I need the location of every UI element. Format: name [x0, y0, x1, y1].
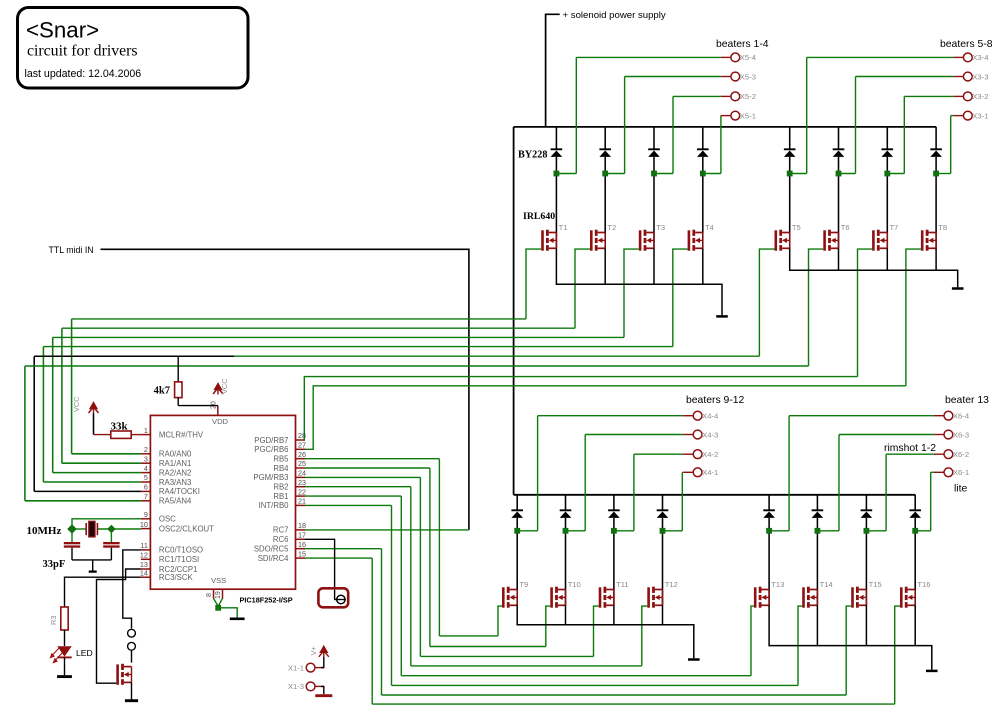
- svg-text:22: 22: [298, 487, 306, 496]
- wire source drop: [662, 605, 664, 625]
- wire X3-2 row: [904, 95, 953, 97]
- transistor T4 (IRL640): [688, 230, 703, 251]
- svg-text:2: 2: [144, 445, 148, 454]
- svg-text:T15: T15: [869, 580, 882, 589]
- diode D9 (BY228): [511, 509, 523, 511]
- svg-text:T5: T5: [792, 223, 801, 232]
- capacitor 33pF at x=72.0: [71, 529, 73, 542]
- transistor T8 (IRL640): [921, 230, 936, 251]
- svg-text:BY228: BY228: [518, 150, 547, 161]
- svg-text:X1-3: X1-3: [288, 682, 304, 691]
- node drain junction T4: [700, 171, 706, 177]
- pin 3 RA1/AN1: [141, 462, 151, 464]
- pin 11 RC0/T1OSO: [141, 549, 151, 551]
- wire X4-2 row: [634, 453, 683, 455]
- wire X1-3 to ground: [321, 686, 324, 694]
- connector X3-3: [963, 72, 972, 81]
- connector X6-1: [944, 468, 953, 477]
- svg-text:T11: T11: [616, 580, 629, 589]
- connector X3-1: [963, 111, 972, 120]
- node drain junction T6: [836, 171, 842, 177]
- pins 8,19 VSS: [213, 589, 215, 599]
- crystal Q1 10MHz: [85, 523, 87, 535]
- svg-text:<Snar>: <Snar>: [26, 18, 99, 43]
- pad J1 (jack/test pad): [318, 588, 348, 607]
- wire riser T8 to connector: [950, 116, 952, 174]
- wire gate lead T15: [846, 606, 851, 695]
- wire RC0 to jumper: [123, 550, 141, 629]
- resistor 33k: [94, 434, 111, 436]
- svg-text:21: 21: [298, 497, 306, 506]
- svg-text:R3: R3: [49, 616, 58, 625]
- wire pin 15 to bottom gate row: [305, 557, 372, 559]
- resistor R? 4k7: [177, 356, 179, 382]
- node drain junction T14: [815, 528, 821, 534]
- connector X6-2: [944, 450, 953, 459]
- wire pin 24 to bottom gate row: [305, 476, 420, 478]
- wire RB7 (pin 28) to T7 gate: [304, 377, 857, 440]
- pin 9 OSC: [141, 518, 151, 520]
- ground crystal caps: [89, 570, 97, 572]
- ground T1-T4: [716, 315, 728, 318]
- diode D13 (BY228): [763, 509, 775, 511]
- svg-text:X5-1: X5-1: [740, 111, 756, 120]
- svg-text:RC7: RC7: [273, 526, 289, 535]
- wire drain jog T15: [866, 530, 886, 532]
- svg-text:beater 13: beater 13: [945, 395, 989, 406]
- wire to gnd: [92, 560, 94, 571]
- diode D4 (BY228): [697, 148, 709, 150]
- transistor T13 (IRL640): [754, 587, 769, 608]
- wire RA5 (pin 7) bundle: [25, 500, 141, 502]
- wire RB6 (pin 27) to T8 gate: [305, 386, 906, 450]
- wire X4-1 row: [681, 471, 684, 473]
- svg-text:33k: 33k: [111, 420, 129, 432]
- svg-text:PGC/RB6: PGC/RB6: [254, 445, 288, 454]
- svg-text:4k7: 4k7: [154, 386, 170, 397]
- wire drain column T8: [935, 127, 937, 149]
- diode D15 (BY228): [861, 509, 873, 511]
- svg-text:RB5: RB5: [273, 455, 289, 464]
- svg-text:circuit for drivers: circuit for drivers: [27, 43, 138, 60]
- wire OSC pin9: [72, 519, 141, 529]
- pin 28 PGD/RB7: [296, 439, 306, 441]
- wire gate lead T8: [906, 249, 921, 386]
- wire gate lead T11: [594, 606, 599, 656]
- wire drain column T9: [516, 495, 518, 511]
- wire gate lead T12: [642, 606, 648, 666]
- pin 24 PGM/RB3: [296, 476, 306, 478]
- svg-text:RB1: RB1: [273, 492, 288, 501]
- svg-text:V+: V+: [309, 646, 318, 655]
- svg-text:TTL midi IN: TTL midi IN: [49, 245, 94, 255]
- transistor T9 (IRL640): [502, 587, 517, 608]
- wire RA0 (pin 2) bundle: [72, 453, 141, 455]
- transistor T11 (IRL640): [599, 587, 614, 608]
- node VSS junction: [215, 605, 221, 611]
- transistor T12 (IRL640): [647, 587, 662, 608]
- node drain junction T1: [554, 171, 560, 177]
- wire riser T11 to connector: [633, 454, 635, 531]
- jumper pin bottom: [128, 642, 136, 650]
- resistor R3: [61, 607, 68, 630]
- svg-text:IRL640: IRL640: [523, 211, 555, 222]
- svg-text:SDI/RC4: SDI/RC4: [258, 554, 289, 563]
- wire drain jog T5: [790, 173, 807, 175]
- svg-text:24: 24: [298, 469, 306, 478]
- svg-text:SDO/RC5: SDO/RC5: [254, 545, 289, 554]
- wire X3-4 row: [807, 56, 954, 58]
- svg-text:X5-4: X5-4: [740, 53, 757, 62]
- svg-text:T2: T2: [607, 223, 616, 232]
- wire X5-2 row: [673, 95, 721, 97]
- transistor T7 (IRL640): [872, 230, 887, 251]
- wire row RA0 to T1 gate: [72, 318, 526, 320]
- ground X1-3: [315, 694, 332, 697]
- svg-text:T7: T7: [890, 223, 899, 232]
- wire riser T3 to connector: [672, 96, 674, 173]
- diode D11 (BY228): [608, 509, 620, 511]
- wire Q17 source to ground: [131, 682, 133, 699]
- svg-text:X6-3: X6-3: [953, 430, 969, 439]
- wire riser T9 to connector: [537, 416, 539, 531]
- wire X3-1 row: [951, 115, 954, 117]
- svg-text:X6-4: X6-4: [953, 412, 970, 421]
- svg-text:T13: T13: [771, 580, 784, 589]
- wire R3 to LED: [64, 630, 66, 646]
- svg-text:X3-1: X3-1: [972, 111, 988, 120]
- pin 5 RA3/AN3: [141, 481, 151, 483]
- svg-text:T10: T10: [568, 580, 581, 589]
- ground Q17: [125, 699, 138, 702]
- svg-text:LED: LED: [76, 648, 93, 658]
- svg-text:7: 7: [144, 492, 148, 501]
- wire riser T14 to connector: [838, 435, 840, 531]
- wire X6-4 row: [789, 415, 934, 417]
- connector X4-2: [693, 450, 702, 459]
- connector X5-4: [731, 53, 740, 62]
- svg-text:RC0/T1OSO: RC0/T1OSO: [159, 546, 203, 555]
- wire source drop: [702, 248, 704, 284]
- svg-text:INT/RB0: INT/RB0: [259, 501, 290, 510]
- wire pin 26 to bottom gate row: [305, 458, 439, 460]
- wire drain column T15: [865, 495, 867, 511]
- svg-text:RC6: RC6: [273, 535, 289, 544]
- svg-text:25: 25: [298, 459, 306, 468]
- connector X1-1: [306, 663, 315, 672]
- connector X4-1: [693, 468, 702, 477]
- wire drain jog T13: [769, 530, 789, 532]
- svg-text:X4-1: X4-1: [702, 468, 718, 477]
- svg-text:PGM/RB3: PGM/RB3: [253, 473, 288, 482]
- wire drain jog T11: [614, 530, 634, 532]
- svg-text:14: 14: [140, 568, 148, 577]
- connector X6-3: [944, 430, 953, 439]
- svg-text:X5-3: X5-3: [740, 72, 756, 81]
- wire drain column T11: [613, 495, 615, 511]
- wire bus drop left: [513, 127, 515, 495]
- diode D12 (BY228): [657, 509, 669, 511]
- svg-text:RA2/AN2: RA2/AN2: [159, 468, 192, 477]
- svg-text:17: 17: [298, 531, 306, 540]
- transistor T5 (IRL640): [775, 230, 790, 251]
- diode D8 (BY228): [930, 148, 942, 150]
- wire X3-3 row: [856, 76, 954, 78]
- wire drain jog T2: [605, 173, 624, 175]
- wire row RA2 to T3 gate: [53, 336, 624, 338]
- svg-text:beaters 5-8: beaters 5-8: [940, 39, 993, 50]
- connector X5-2: [731, 92, 740, 101]
- svg-text:27: 27: [298, 441, 306, 450]
- wire gate lead T6: [809, 249, 824, 366]
- wire RC3 to R3: [65, 577, 141, 607]
- svg-text:RA1/AN1: RA1/AN1: [159, 459, 192, 468]
- node xtal right: [107, 525, 115, 533]
- pin 20 VDD: [217, 406, 219, 416]
- supply V+: [319, 646, 329, 657]
- transistor T1 (IRL640): [541, 230, 556, 251]
- svg-text:OSC: OSC: [159, 515, 176, 524]
- wire riser T1 to connector: [575, 57, 577, 173]
- pin 4 RA2/AN2: [141, 472, 151, 474]
- wire X4-4 row: [538, 415, 684, 417]
- wire gate lead T13: [751, 606, 754, 676]
- svg-text:X4-3: X4-3: [702, 430, 718, 439]
- wire gate lead T2: [575, 249, 590, 328]
- wire X4-3 row: [585, 434, 683, 436]
- diode D7 (BY228): [882, 148, 894, 150]
- svg-text:X3-3: X3-3: [972, 72, 988, 81]
- connector X6-4: [944, 411, 953, 420]
- wire drain column T5: [789, 127, 791, 149]
- wire X5-3 row: [625, 76, 721, 78]
- wire row RA5 to T6 gate: [25, 365, 809, 367]
- diode D3 (BY228): [648, 148, 660, 150]
- svg-text:23: 23: [298, 478, 306, 487]
- wire drain jog T9: [517, 530, 537, 532]
- diode D5 (BY228): [784, 148, 796, 150]
- svg-text:16: 16: [298, 540, 306, 549]
- wire gate lead T7: [858, 249, 873, 377]
- svg-text:RC1/T1OSI: RC1/T1OSI: [159, 555, 199, 564]
- svg-text:T4: T4: [705, 223, 714, 232]
- wire RA4 (pin 6) bundle: [34, 490, 141, 492]
- wire drain jog T6: [839, 173, 856, 175]
- connector X1-3: [306, 682, 315, 691]
- svg-text:RB2: RB2: [273, 483, 288, 492]
- wire gate lead T5: [759, 249, 774, 356]
- svg-text:4: 4: [144, 464, 148, 473]
- connector X4-4: [693, 411, 702, 420]
- pin 25 RB4: [296, 467, 306, 469]
- wire 4k7 to VDD: [178, 405, 218, 407]
- ground VSS: [230, 617, 245, 620]
- svg-text:beaters 1-4: beaters 1-4: [716, 39, 769, 50]
- wire drain column T14: [816, 495, 818, 511]
- pin 10 OSC2/CLKOUT: [141, 528, 151, 530]
- wire X5-4 row: [576, 56, 721, 58]
- wire TTL midi IN to RC7: [101, 249, 469, 530]
- wire RC7 midi row: [305, 529, 469, 531]
- svg-text:T16: T16: [917, 580, 930, 589]
- transistor T2 (IRL640): [590, 230, 605, 251]
- wire crystal right to pin10: [98, 528, 141, 530]
- svg-text:T6: T6: [841, 223, 850, 232]
- wire RA3 (pin 5) bundle: [43, 481, 140, 483]
- svg-text:1: 1: [144, 426, 148, 435]
- svg-text:last updated: 12.04.2006: last updated: 12.04.2006: [25, 68, 142, 80]
- wire riser T6 to connector: [855, 77, 857, 174]
- wire drain column T10: [565, 495, 567, 511]
- svg-text:PIC18F252-I/SP: PIC18F252-I/SP: [240, 596, 293, 605]
- wire jumper to Q17 drain: [131, 651, 133, 663]
- transistor T10 (IRL640): [550, 587, 565, 608]
- svg-text:33pF: 33pF: [43, 559, 66, 570]
- pin 7 RA5/AN4: [141, 500, 151, 502]
- wire drain jog T8: [936, 173, 951, 175]
- node drain junction T15: [864, 528, 870, 534]
- pin 13 RC2/CCP1: [141, 568, 151, 570]
- node drain junction T5: [787, 171, 793, 177]
- wire RA1 (pin 3) bundle: [62, 462, 141, 464]
- wire row RA3 to T4 gate: [43, 346, 672, 348]
- svg-text:RA3/AN3: RA3/AN3: [159, 478, 192, 487]
- capacitor 33pF at x=111.4: [110, 529, 112, 542]
- wire drain column T6: [838, 127, 840, 149]
- wire pin 21 to bottom gate row: [305, 504, 392, 506]
- wire pin 16 to bottom gate row: [305, 548, 382, 550]
- wire drain jog T14: [817, 530, 839, 532]
- wire X6-1 row: [931, 471, 934, 473]
- wire riser T12 to connector: [681, 472, 683, 531]
- ground T5-T8: [952, 287, 964, 290]
- wire drain jog T16: [915, 530, 931, 532]
- node drain junction T7: [884, 171, 890, 177]
- diode D6 (BY228): [833, 148, 845, 150]
- wire source drop: [865, 605, 867, 645]
- diode D1 (BY228): [551, 148, 563, 150]
- wire source drop: [816, 605, 818, 645]
- svg-text:lite: lite: [954, 484, 968, 495]
- wire drain column T12: [662, 495, 664, 511]
- LED D17: [57, 646, 71, 656]
- svg-text:3: 3: [144, 454, 148, 463]
- svg-text:T14: T14: [820, 580, 833, 589]
- svg-text:RA0/AN0: RA0/AN0: [159, 450, 192, 459]
- svg-text:RA4/TOCKI: RA4/TOCKI: [159, 487, 200, 496]
- svg-text:T9: T9: [519, 580, 528, 589]
- node drain junction T9: [514, 528, 520, 534]
- wire drain jog T10: [566, 530, 586, 532]
- wire source drop: [838, 248, 840, 270]
- pin 14 RC3/SCK: [141, 576, 151, 578]
- wire source drop: [886, 248, 888, 270]
- svg-text:T12: T12: [665, 580, 678, 589]
- pin 6 RA4/TOCKI: [141, 490, 151, 492]
- wire riser T2 to connector: [624, 77, 626, 174]
- svg-text:X4-4: X4-4: [702, 412, 719, 421]
- wire row RA4 to T5 gate (with 4k7 pullup tap): [34, 355, 234, 357]
- wire bottom solenoid bus: [514, 494, 916, 496]
- wire drain jog T3: [654, 173, 673, 175]
- node drain junction T2: [602, 171, 608, 177]
- wire drain column T16: [914, 495, 916, 511]
- svg-text:X1-1: X1-1: [288, 663, 304, 672]
- svg-text:beaters 9-12: beaters 9-12: [686, 395, 745, 406]
- ground T13-T16: [926, 670, 938, 673]
- wire drain jog T12: [663, 530, 683, 532]
- wire source drop: [653, 248, 655, 284]
- pin 15 SDI/RC4: [296, 557, 306, 559]
- svg-text:X5-2: X5-2: [740, 92, 756, 101]
- svg-text:10: 10: [140, 520, 148, 529]
- svg-text:X6-1: X6-1: [953, 468, 969, 477]
- pin 21 INT/RB0: [296, 504, 306, 506]
- wire riser T16 to connector: [930, 472, 932, 531]
- wire riser T4 to connector: [720, 116, 722, 174]
- wire drain column T7: [886, 127, 888, 149]
- pin 1 MCLR#/THV: [141, 434, 151, 436]
- wire RC6 to pad: [305, 539, 335, 599]
- svg-text:T1: T1: [559, 223, 568, 232]
- node drain junction T11: [611, 528, 617, 534]
- pin 17 RC6: [296, 538, 306, 540]
- wire drain jog T7: [887, 173, 904, 175]
- transistor T16 (IRL640): [900, 587, 915, 608]
- diode D10 (BY228): [560, 509, 572, 511]
- wire gate lead T16: [895, 606, 900, 704]
- wire pin 25 to bottom gate row: [305, 467, 430, 469]
- wire source drop: [914, 605, 916, 645]
- svg-text:VDD: VDD: [212, 417, 229, 426]
- pin 18 RC7: [296, 529, 306, 531]
- + solenoid power supply feed: [546, 14, 560, 127]
- wire riser T5 to connector: [806, 57, 808, 173]
- svg-text:T3: T3: [656, 223, 665, 232]
- wire drain column T4: [702, 127, 704, 149]
- diode D14 (BY228): [812, 509, 824, 511]
- svg-text:X3-2: X3-2: [972, 92, 988, 101]
- wire gate lead T14: [798, 606, 802, 685]
- svg-text:VSS: VSS: [211, 576, 226, 585]
- connector X3-2: [963, 92, 972, 101]
- svg-text:12: 12: [140, 551, 148, 560]
- wire source drop: [935, 248, 937, 270]
- svg-text:RA5/AN4: RA5/AN4: [159, 497, 192, 506]
- svg-text:9: 9: [144, 510, 148, 519]
- svg-text:VCC: VCC: [220, 378, 229, 394]
- wire X6-3 row: [839, 434, 934, 436]
- svg-text:5: 5: [144, 473, 148, 482]
- wire drain jog T1: [556, 173, 576, 175]
- pin 23 RB2: [296, 486, 306, 488]
- svg-text:X3-4: X3-4: [972, 53, 989, 62]
- wire drain column T13: [768, 495, 770, 511]
- wire riser T13 to connector: [788, 416, 790, 531]
- svg-text:X4-2: X4-2: [702, 450, 718, 459]
- svg-text:T8: T8: [938, 223, 947, 232]
- wire riser T10 to connector: [584, 435, 586, 531]
- svg-text:18: 18: [298, 521, 306, 530]
- IC U1 PIC18F252-I/SP body: [150, 415, 295, 589]
- ground T9-T12: [688, 658, 700, 661]
- node drain junction T13: [766, 528, 772, 534]
- svg-text:8: 8: [206, 593, 213, 597]
- connector X5-3: [731, 72, 740, 81]
- pin 16 SDO/RC5: [296, 548, 306, 550]
- svg-text:RC3/SCK: RC3/SCK: [159, 573, 194, 582]
- pin 12 RC1/T1OSI: [141, 558, 151, 560]
